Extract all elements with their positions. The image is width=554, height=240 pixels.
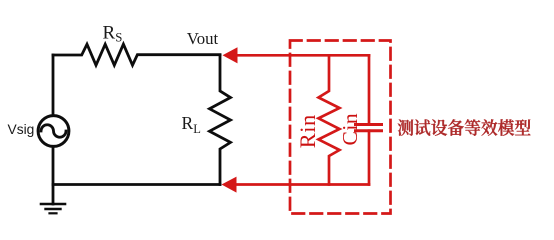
svg-text:RS: RS bbox=[103, 23, 123, 45]
svg-text:Vsig: Vsig bbox=[8, 122, 35, 137]
svg-text:RL: RL bbox=[182, 113, 201, 136]
svg-text:Rin: Rin bbox=[295, 114, 320, 148]
svg-text:Cin: Cin bbox=[338, 113, 362, 146]
svg-text:Vout: Vout bbox=[187, 29, 219, 48]
